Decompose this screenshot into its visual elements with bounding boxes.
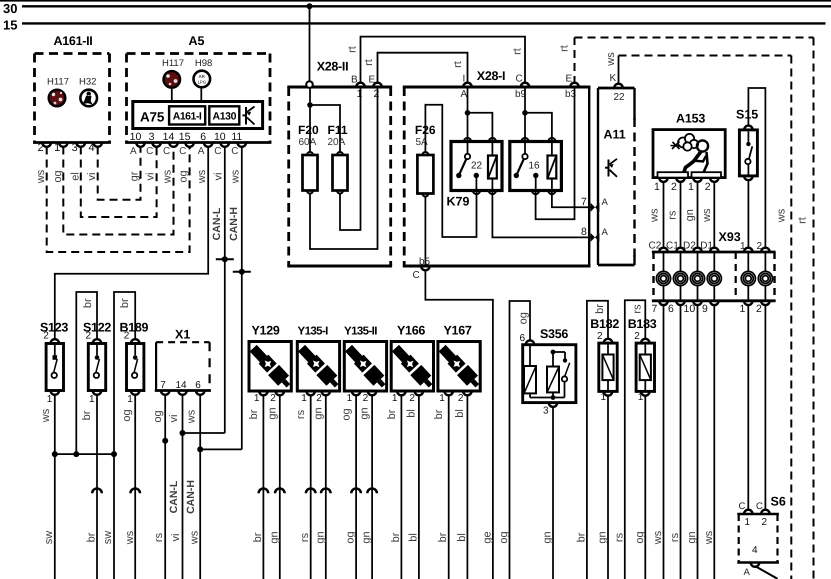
pin E / 2 — [373, 83, 382, 87]
svg-text:7: 7 — [160, 380, 166, 391]
svg-text:A130: A130 — [213, 111, 237, 123]
svg-text:2: 2 — [270, 393, 276, 404]
svg-text:1: 1 — [127, 394, 133, 405]
svg-text:2: 2 — [374, 88, 380, 100]
svg-text:4: 4 — [752, 545, 758, 556]
svg-text:gn: gn — [684, 209, 696, 221]
svg-text:S15: S15 — [736, 108, 758, 122]
svg-text:60A: 60A — [299, 137, 317, 148]
relay coil K79 — [491, 143, 493, 156]
wire A5 pin6 to S123 pin2 — [55, 147, 208, 340]
CAN-H junction dot — [233, 271, 251, 273]
A161-II pins 2 1 3 4 — [42, 143, 51, 147]
svg-text:ws: ws — [185, 409, 197, 424]
svg-text:ws: ws — [652, 530, 664, 545]
svg-text:rs: rs — [299, 532, 311, 542]
A153 pins 1 2 1 2 — [659, 178, 668, 182]
svg-text:og: og — [178, 170, 190, 182]
svg-text:3: 3 — [72, 142, 78, 154]
relay 2 coil — [551, 143, 553, 156]
connector crossing pin 8 / A — [591, 233, 600, 242]
svg-text:gn: gn — [361, 531, 373, 543]
svg-text:H98: H98 — [195, 58, 212, 69]
pin C / b9 — [521, 83, 530, 87]
bus 15 — [22, 22, 826, 24]
pin B / 1 — [356, 83, 365, 87]
svg-text:2: 2 — [43, 331, 49, 342]
svg-text:ge: ge — [481, 531, 493, 543]
svg-text:AR: AR — [199, 74, 206, 79]
svg-text:1: 1 — [601, 392, 607, 403]
svg-text:22: 22 — [614, 92, 626, 103]
svg-text:rt: rt — [559, 45, 571, 52]
S356 internals — [529, 346, 531, 366]
wire B183 pin1 down — [644, 395, 646, 579]
svg-text:br: br — [575, 532, 587, 542]
svg-text:2: 2 — [634, 331, 640, 342]
svg-text:gr: gr — [129, 171, 141, 181]
switch S123 — [46, 344, 63, 391]
svg-text:CAN-L: CAN-L — [211, 207, 223, 240]
svg-text:2: 2 — [597, 331, 603, 342]
svg-text:ws: ws — [703, 530, 715, 545]
pedestal feet — [658, 172, 689, 177]
svg-text:rs: rs — [153, 532, 165, 542]
svg-text:2: 2 — [316, 393, 322, 404]
svg-text:2: 2 — [762, 517, 768, 528]
switch S15 — [739, 130, 757, 176]
CAN-H wire from A5 pin11 — [241, 147, 243, 450]
svg-text:ws: ws — [162, 169, 174, 184]
svg-text:B: B — [351, 75, 358, 86]
svg-text:3: 3 — [543, 406, 549, 417]
svg-text:gn: gn — [312, 407, 324, 419]
svg-text:vi: vi — [145, 173, 157, 181]
svg-text:X1: X1 — [175, 328, 190, 342]
connector crossing pin 7 / A — [591, 203, 600, 212]
svg-text:A: A — [461, 89, 468, 100]
svg-text:8: 8 — [581, 226, 587, 238]
svg-text:2: 2 — [38, 142, 44, 154]
injector valve Y135-I — [297, 342, 339, 392]
svg-text:F11: F11 — [328, 123, 348, 137]
svg-text:1: 1 — [54, 142, 60, 154]
svg-text:gn: gn — [359, 407, 371, 419]
svg-text:el: el — [69, 172, 81, 181]
svg-text:A75: A75 — [140, 110, 165, 125]
wire — [171, 89, 173, 102]
wire S15 top loop to X93 pin 2 — [748, 88, 765, 248]
svg-text:6: 6 — [200, 131, 206, 143]
svg-text:gn: gn — [686, 531, 698, 543]
wire X1-7 down — [164, 395, 166, 579]
svg-text:og: og — [121, 409, 133, 421]
svg-text:rs: rs — [669, 532, 681, 542]
svg-text:CAN-H: CAN-H — [185, 480, 197, 514]
wire F20 to pin 2 — [310, 89, 378, 250]
wire relay2 coil to A11 pin 7 — [552, 192, 592, 207]
dashed wire pin2-ws to A75 pin15-og — [47, 147, 190, 253]
svg-text:br: br — [437, 532, 449, 542]
svg-text:15: 15 — [3, 18, 17, 33]
svg-text:C: C — [739, 501, 746, 512]
connector sleeves — [659, 248, 668, 252]
svg-text:11: 11 — [231, 131, 242, 143]
svg-text:3: 3 — [149, 131, 155, 143]
svg-text:1: 1 — [740, 303, 746, 315]
dashed wire pin1-og to A75 pin14-ws — [63, 147, 173, 235]
svg-text:A: A — [744, 567, 751, 578]
dashed rt wire from pin b3 across top and down right — [574, 38, 576, 85]
svg-text:X93: X93 — [719, 230, 741, 244]
svg-text:H117: H117 — [47, 77, 69, 88]
wire X1-6 down joins CAN-H — [199, 395, 201, 579]
wire F26 to pin b5 — [424, 197, 426, 266]
svg-text:br: br — [594, 304, 606, 314]
svg-text:gn: gn — [266, 407, 278, 419]
svg-text:2: 2 — [86, 331, 92, 342]
svg-text:1: 1 — [89, 394, 95, 405]
svg-text:X28-I: X28-I — [477, 69, 505, 83]
svg-text:K79: K79 — [447, 195, 470, 209]
svg-text:rt: rt — [797, 217, 809, 224]
svg-text:B182: B182 — [590, 317, 619, 331]
wire pin b9 to relay — [524, 89, 526, 142]
svg-text:H32: H32 — [79, 77, 96, 88]
svg-text:I: I — [463, 74, 466, 85]
svg-text:br: br — [390, 532, 402, 542]
svg-text:ws: ws — [605, 52, 617, 67]
svg-text:30: 30 — [3, 1, 17, 16]
svg-text:10: 10 — [130, 131, 142, 143]
wire pin A to relay K79 — [467, 89, 469, 142]
svg-text:1: 1 — [347, 393, 353, 404]
svg-text:2: 2 — [409, 393, 415, 404]
svg-text:Y129: Y129 — [252, 324, 280, 338]
ground bus junction — [55, 453, 114, 455]
svg-text:4: 4 — [89, 142, 95, 154]
svg-text:A5: A5 — [189, 34, 205, 48]
svg-text:1: 1 — [654, 181, 660, 193]
svg-text:rs: rs — [295, 409, 307, 419]
svg-text:vi: vi — [213, 173, 225, 181]
svg-text:bl: bl — [454, 409, 466, 418]
rt wire pin B to X28-I pin C — [361, 37, 526, 84]
svg-text:vi: vi — [170, 534, 182, 542]
svg-text:1: 1 — [745, 517, 751, 528]
svg-text:C: C — [516, 74, 523, 85]
relay 2 (16) — [510, 142, 562, 191]
svg-text:1: 1 — [688, 181, 694, 193]
CAN-L junction dot — [216, 258, 234, 260]
svg-text:H117: H117 — [162, 58, 184, 69]
svg-text:1: 1 — [301, 393, 307, 404]
svg-text:6: 6 — [520, 333, 526, 344]
pin 3 down — [549, 403, 558, 407]
svg-text:6: 6 — [668, 303, 674, 315]
svg-text:C: C — [756, 501, 763, 512]
svg-text:bl: bl — [407, 533, 419, 542]
svg-text:X28-II: X28-II — [317, 60, 349, 74]
svg-text:Y135-I: Y135-I — [298, 326, 329, 338]
svg-text:C: C — [163, 146, 170, 157]
connector box X28-II — [287, 86, 392, 89]
control unit A161-II — [35, 52, 110, 55]
svg-text:A11: A11 — [604, 128, 626, 142]
svg-text:bl: bl — [456, 533, 468, 542]
svg-text:1: 1 — [638, 392, 644, 403]
connector S6 — [737, 513, 779, 516]
svg-text:ws: ws — [40, 408, 52, 423]
svg-text:gn: gn — [597, 531, 609, 543]
wire B189 pin1 down — [134, 395, 136, 579]
ECU A75 inside A5 — [133, 102, 263, 129]
connector X93 — [652, 251, 776, 254]
svg-text:br: br — [433, 409, 445, 419]
svg-text:E: E — [369, 75, 376, 86]
svg-text:br: br — [85, 532, 97, 542]
svg-text:2: 2 — [124, 331, 130, 342]
svg-text:vi: vi — [168, 415, 180, 423]
sub-unit A130 — [209, 106, 239, 124]
dashed ws wire across top and down right — [619, 55, 792, 57]
svg-text:Y167: Y167 — [444, 324, 472, 338]
resistor/switch unit S356 — [523, 345, 576, 403]
top border line — [0, 0, 831, 2]
wire pin b3 to relay contact — [536, 89, 575, 220]
svg-text:gn: gn — [542, 531, 554, 543]
relay K79 — [451, 142, 502, 191]
svg-text:ws: ws — [35, 169, 47, 184]
wire B189 pin2 loop down — [114, 292, 135, 579]
wires A153 to X93 — [663, 182, 665, 249]
svg-text:vi: vi — [86, 173, 98, 181]
wire S122 pin2 loop down — [76, 292, 97, 454]
svg-text:7: 7 — [652, 303, 658, 315]
svg-text:A161-I: A161-I — [173, 111, 202, 123]
svg-text:C: C — [413, 270, 420, 281]
svg-text:og: og — [52, 170, 64, 182]
svg-text:og: og — [152, 410, 164, 422]
svg-text:rt: rt — [512, 48, 524, 55]
svg-text:A161-II: A161-II — [54, 34, 93, 48]
rt wire pin E to X28-I pin I — [378, 53, 468, 84]
transistor glyph in A75 — [245, 107, 247, 125]
wire F26 to K79 contact 30 — [425, 105, 476, 237]
wire tap from bus 30 — [309, 6, 311, 81]
wire B182 pin1 down — [607, 395, 609, 579]
svg-text:S6: S6 — [771, 495, 786, 509]
svg-text:2: 2 — [671, 181, 677, 193]
wire K79 coil to A11 pin 8 — [492, 192, 592, 237]
svg-text:14: 14 — [163, 131, 175, 143]
wire S123 pin1 down — [54, 395, 56, 579]
svg-text:K: K — [610, 73, 617, 84]
svg-text:A: A — [602, 227, 609, 238]
svg-text:br: br — [248, 409, 260, 419]
svg-text:E: E — [566, 74, 573, 85]
pin K / 22 — [614, 84, 623, 88]
direction arrows — [92, 488, 102, 493]
svg-text:1: 1 — [357, 88, 363, 100]
pin I / A — [463, 83, 472, 87]
svg-text:10: 10 — [214, 131, 226, 143]
airbag unit A153 — [653, 130, 725, 178]
svg-text:C: C — [214, 146, 221, 157]
svg-text:Y135-II: Y135-II — [344, 326, 377, 338]
svg-text:ws: ws — [189, 530, 201, 545]
svg-text:og: og — [341, 408, 353, 420]
svg-text:6: 6 — [195, 380, 201, 391]
svg-text:og: og — [634, 531, 646, 543]
X93 output wires — [663, 305, 665, 579]
pin 6 with loop wire down — [526, 340, 535, 344]
dashed wire pin3-el to A75 pin3-vi — [81, 147, 157, 218]
svg-text:C: C — [146, 146, 153, 157]
svg-text:sw: sw — [102, 531, 114, 545]
svg-text:2: 2 — [363, 393, 369, 404]
sub-unit A161-I — [169, 106, 205, 124]
svg-text:22: 22 — [471, 161, 483, 172]
wires Y166 pins to bottom — [400, 395, 402, 579]
svg-text:15: 15 — [179, 131, 191, 143]
pin E / b3 — [570, 83, 579, 87]
pin b5 / C — [421, 266, 430, 270]
svg-text:ws: ws — [648, 208, 660, 223]
CAN-L wire from A5 pin10 — [224, 147, 226, 434]
svg-text:rt: rt — [363, 59, 375, 66]
wire F11 to pin 1 — [340, 89, 361, 231]
wire B183 pin2 loop down — [625, 300, 646, 579]
svg-text:sw: sw — [43, 531, 55, 545]
ws wire from pin K — [618, 56, 620, 84]
wires Y135-II pins to bottom — [355, 395, 357, 579]
svg-text:7: 7 — [581, 196, 587, 208]
svg-text:CAN-H: CAN-H — [228, 207, 240, 241]
svg-text:gn: gn — [268, 531, 280, 543]
svg-text:br: br — [82, 298, 94, 308]
internal wiring X28-II — [309, 88, 311, 152]
svg-text:br: br — [119, 298, 131, 308]
sensor B183 — [636, 343, 654, 391]
svg-text:rs: rs — [631, 304, 643, 314]
svg-text:9: 9 — [702, 303, 708, 315]
control unit A11 — [598, 87, 635, 90]
svg-text:2: 2 — [705, 181, 711, 193]
connector box X28-I — [403, 86, 591, 89]
wire S122 pin1 down — [96, 395, 98, 579]
svg-text:2: 2 — [458, 393, 464, 404]
wires Y167 pins to bottom — [448, 395, 450, 579]
svg-text:ws: ws — [230, 169, 242, 184]
ring terminal on X28-II — [306, 81, 313, 88]
svg-text:C: C — [231, 146, 238, 157]
control unit A5 — [127, 52, 271, 55]
pin 4 / A with diagonal exit wire — [751, 563, 760, 567]
svg-text:S356: S356 — [540, 327, 568, 341]
transistor glyph in A11 — [608, 160, 610, 177]
svg-text:1: 1 — [254, 393, 260, 404]
svg-text:C: C — [179, 146, 186, 157]
svg-text:br: br — [386, 409, 398, 419]
switch B189 — [127, 344, 144, 391]
switch S122 — [88, 344, 105, 391]
svg-text:CAN-L: CAN-L — [168, 480, 180, 513]
svg-text:A: A — [602, 197, 609, 208]
svg-text:rs: rs — [613, 532, 625, 542]
crash pictogram — [671, 134, 709, 174]
svg-text:ws: ws — [776, 208, 788, 223]
svg-text:og: og — [498, 531, 510, 543]
svg-text:1: 1 — [439, 393, 445, 404]
connector X1 — [155, 342, 157, 390]
injector valve Y135-II — [344, 342, 386, 392]
injector valve Y167 — [438, 342, 480, 392]
svg-text:gn: gn — [314, 531, 326, 543]
svg-text:rs: rs — [667, 210, 679, 220]
svg-text:br: br — [252, 532, 264, 542]
svg-text:16: 16 — [529, 161, 541, 172]
svg-text:bl: bl — [405, 409, 417, 418]
sensor B182 — [599, 343, 617, 391]
svg-text:og: og — [345, 531, 357, 543]
svg-text:B183: B183 — [628, 317, 657, 331]
dashed wire pin4-vi to A75 pin10-gr — [98, 147, 141, 200]
injector valve Y166 — [391, 342, 433, 392]
svg-text:20A: 20A — [328, 137, 346, 148]
wire S15 bottom to X93 pin 1 — [747, 180, 749, 248]
svg-text:14: 14 — [176, 380, 188, 391]
injector valve Y129 — [249, 342, 291, 392]
svg-text:2: 2 — [756, 303, 762, 315]
svg-text:10: 10 — [684, 303, 696, 315]
bus 30 — [22, 5, 831, 7]
svg-text:A: A — [130, 146, 137, 157]
wire B182 pin2 loop down — [587, 301, 608, 579]
svg-text:ws: ws — [701, 208, 713, 223]
svg-text:b5: b5 — [419, 256, 431, 267]
svg-text:Y166: Y166 — [397, 324, 425, 338]
wires Y129 pins to bottom — [262, 395, 264, 579]
svg-text:F20: F20 — [298, 123, 319, 137]
wires X93 to S6 — [747, 305, 749, 511]
svg-text:A: A — [198, 146, 205, 157]
svg-text:br: br — [81, 410, 93, 420]
svg-text:ws: ws — [124, 530, 136, 545]
wire b5 to bottom (ge) — [425, 270, 493, 579]
svg-text:og: og — [518, 312, 530, 324]
wires Y135-I pins to bottom — [310, 395, 312, 579]
svg-text:ws: ws — [196, 169, 208, 184]
svg-text:rt: rt — [347, 46, 359, 53]
svg-text:rt: rt — [452, 61, 464, 68]
svg-text:1: 1 — [392, 393, 398, 404]
wire X1-14 down joins CAN-L — [182, 395, 184, 579]
svg-text:A153: A153 — [676, 112, 705, 126]
svg-text:1: 1 — [47, 394, 53, 405]
svg-text:LPG: LPG — [198, 80, 206, 85]
